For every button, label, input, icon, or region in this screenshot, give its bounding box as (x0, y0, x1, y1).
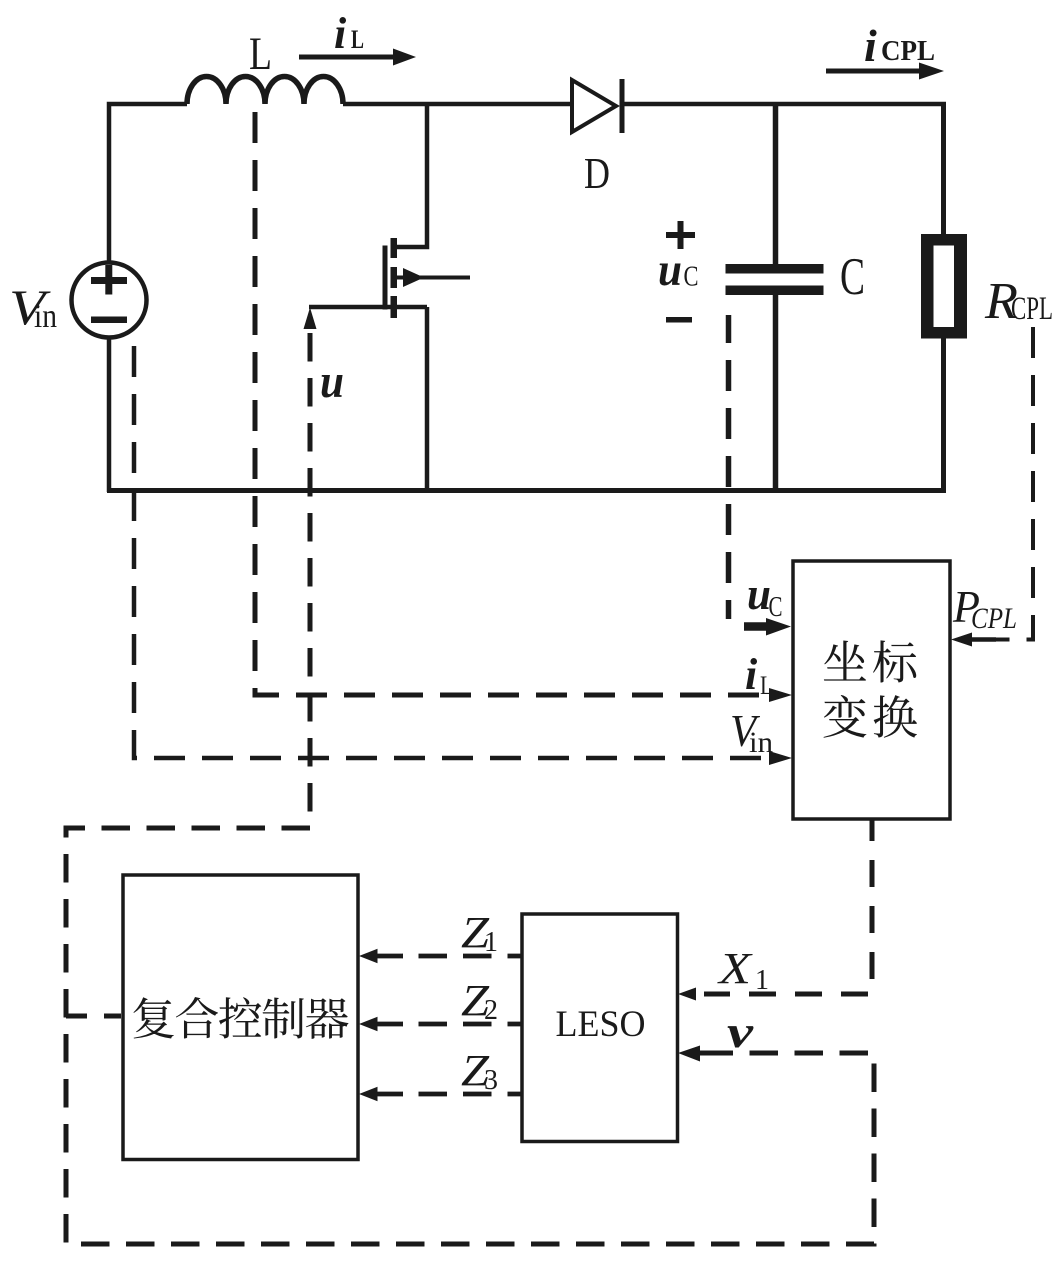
wire RCPL top (941, 102, 946, 236)
wire bottom rail (107, 488, 946, 493)
arrow iCPL (826, 63, 944, 80)
arrow uC into transform box (744, 618, 791, 636)
svg-text:X: X (717, 944, 754, 993)
svg-text:LESO: LESO (556, 1004, 646, 1045)
block LESO box (522, 914, 678, 1142)
dashed net Z2 (402, 1022, 522, 1027)
svg-text:2: 2 (484, 995, 498, 1026)
label fuhe kongzhiqi (133, 997, 348, 1039)
label plus uC (666, 221, 695, 249)
svg-text:u: u (658, 244, 682, 296)
wire inductor to diode (343, 102, 572, 107)
arrow iL into transform box (769, 688, 792, 702)
arrow u to gate (304, 308, 317, 330)
block coordinate transform box (793, 561, 950, 819)
arrow Z2 into controller (359, 1017, 403, 1032)
wire diode to output node (624, 102, 946, 107)
svg-text:L: L (760, 671, 773, 700)
dashed net uC sense (726, 315, 732, 619)
svg-text:u: u (747, 568, 771, 619)
mosfet drain bar (391, 238, 398, 258)
svg-text:C: C (769, 592, 783, 623)
wire RCPL bottom (941, 338, 946, 492)
wire left below source (107, 337, 112, 492)
dashed branch u into controller (66, 1014, 121, 1019)
transistor MOSFET switch: drain wire (394, 104, 427, 247)
svg-text:L: L (249, 28, 272, 80)
block composite controller box (123, 875, 358, 1160)
dashed net X1 (704, 819, 872, 994)
label minus uC (666, 317, 692, 323)
wire capacitor bottom (773, 293, 779, 492)
inductor L (187, 77, 343, 105)
dashed net PCPL (995, 327, 1033, 640)
svg-text:C: C (684, 262, 699, 293)
svg-text:v: v (727, 1006, 754, 1057)
svg-text:L: L (351, 25, 364, 54)
svg-text:i: i (864, 20, 877, 71)
svg-text:i: i (334, 9, 347, 58)
arrow v into LESO (678, 1046, 723, 1062)
mosfet gate and source horizontal lead (309, 305, 427, 310)
mosfet source bar (391, 296, 398, 318)
svg-text:1: 1 (484, 927, 498, 958)
mosfet body bar (391, 267, 398, 288)
capacitor C plates (726, 264, 824, 295)
svg-text:CPL: CPL (1011, 291, 1053, 327)
voltage source Vin (72, 263, 147, 338)
svg-text:i: i (745, 650, 758, 699)
svg-text:1: 1 (755, 965, 769, 996)
svg-text:u: u (320, 355, 344, 408)
svg-text:CPL: CPL (881, 36, 935, 67)
dashed net Z1 (402, 954, 522, 959)
mosfet body lead with arrow (397, 268, 470, 287)
resistor RCPL (921, 234, 967, 339)
arrow PCPL into transform box (951, 633, 996, 647)
arrow X1 into LESO (678, 988, 696, 1001)
arrow iL (299, 49, 416, 66)
diode D (572, 79, 622, 133)
dashed net Z3 (402, 1092, 522, 1097)
mosfet source wire to bottom rail (425, 307, 430, 490)
wire top-left from Vin to inductor (109, 104, 187, 262)
svg-text:D: D (584, 149, 610, 198)
svg-text:CPL: CPL (971, 602, 1017, 635)
svg-text:in: in (749, 726, 773, 759)
mosfet gate bar (383, 246, 388, 310)
arrow Z1 into controller (359, 949, 403, 964)
dashed net u control (66, 333, 874, 1244)
svg-text:in: in (34, 298, 57, 335)
label zuobiao bianhuan (824, 640, 917, 737)
arrow Z3 into controller (359, 1087, 403, 1102)
dashed net Vin sense (134, 346, 768, 758)
arrow Vin into transform box (769, 751, 792, 765)
dashed net iL sense (255, 112, 768, 695)
svg-text:3: 3 (484, 1065, 498, 1096)
svg-text:C: C (840, 248, 865, 306)
wire capacitor top (773, 104, 779, 266)
